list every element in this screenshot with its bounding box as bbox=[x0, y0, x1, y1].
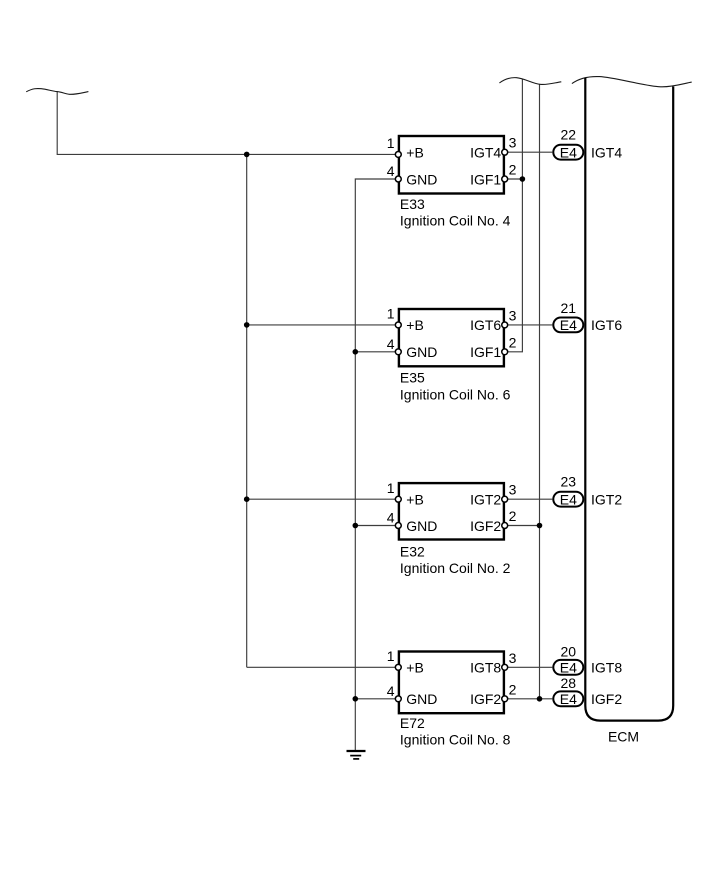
svg-text:2: 2 bbox=[509, 681, 517, 697]
svg-text:E4: E4 bbox=[560, 145, 577, 161]
svg-text:+B: +B bbox=[406, 660, 424, 676]
svg-text:E4: E4 bbox=[560, 691, 577, 707]
svg-text:IGT2: IGT2 bbox=[591, 491, 622, 507]
svg-text:ECM: ECM bbox=[608, 728, 639, 744]
svg-text:4: 4 bbox=[387, 683, 395, 699]
svg-text:IGT6: IGT6 bbox=[470, 317, 501, 333]
svg-text:4: 4 bbox=[387, 163, 395, 179]
svg-text:E35: E35 bbox=[400, 370, 425, 386]
svg-text:3: 3 bbox=[509, 135, 517, 151]
svg-text:IGF1: IGF1 bbox=[470, 171, 501, 187]
svg-text:22: 22 bbox=[561, 127, 577, 143]
svg-text:1: 1 bbox=[387, 135, 395, 151]
svg-text:3: 3 bbox=[509, 482, 517, 498]
svg-text:E4: E4 bbox=[560, 492, 577, 508]
svg-text:28: 28 bbox=[561, 675, 577, 691]
svg-text:GND: GND bbox=[406, 344, 437, 360]
svg-text:20: 20 bbox=[561, 644, 577, 660]
svg-text:Ignition Coil No. 2: Ignition Coil No. 2 bbox=[400, 560, 511, 576]
svg-text:IGT4: IGT4 bbox=[591, 144, 622, 160]
svg-text:IGT8: IGT8 bbox=[470, 660, 501, 676]
svg-text:E33: E33 bbox=[400, 196, 425, 212]
svg-text:3: 3 bbox=[509, 650, 517, 666]
svg-text:E4: E4 bbox=[560, 317, 577, 333]
svg-text:4: 4 bbox=[387, 510, 395, 526]
svg-text:Ignition Coil No. 6: Ignition Coil No. 6 bbox=[400, 386, 511, 402]
svg-text:IGT2: IGT2 bbox=[470, 492, 501, 508]
svg-text:GND: GND bbox=[406, 518, 437, 534]
svg-text:23: 23 bbox=[561, 473, 577, 489]
svg-text:Ignition Coil No. 8: Ignition Coil No. 8 bbox=[400, 732, 511, 748]
svg-text:IGT8: IGT8 bbox=[591, 660, 622, 676]
svg-text:IGF2: IGF2 bbox=[470, 518, 501, 534]
svg-text:2: 2 bbox=[509, 162, 517, 178]
svg-text:2: 2 bbox=[509, 508, 517, 524]
svg-text:4: 4 bbox=[387, 336, 395, 352]
svg-text:E72: E72 bbox=[400, 715, 425, 731]
svg-text:21: 21 bbox=[561, 300, 577, 316]
svg-text:E4: E4 bbox=[560, 660, 577, 676]
svg-text:+B: +B bbox=[406, 145, 424, 161]
svg-text:IGT6: IGT6 bbox=[591, 317, 622, 333]
svg-text:GND: GND bbox=[406, 171, 437, 187]
svg-text:3: 3 bbox=[509, 307, 517, 323]
svg-text:1: 1 bbox=[387, 648, 395, 664]
svg-text:Ignition Coil No. 4: Ignition Coil No. 4 bbox=[400, 212, 511, 228]
svg-text:1: 1 bbox=[387, 480, 395, 496]
svg-text:IGF2: IGF2 bbox=[470, 691, 501, 707]
svg-text:1: 1 bbox=[387, 306, 395, 322]
svg-text:+B: +B bbox=[406, 492, 424, 508]
svg-text:2: 2 bbox=[509, 334, 517, 350]
svg-text:GND: GND bbox=[406, 691, 437, 707]
svg-text:IGT4: IGT4 bbox=[470, 145, 501, 161]
svg-text:+B: +B bbox=[406, 317, 424, 333]
svg-text:IGF1: IGF1 bbox=[470, 344, 501, 360]
svg-text:E32: E32 bbox=[400, 544, 425, 560]
svg-text:IGF2: IGF2 bbox=[591, 691, 622, 707]
